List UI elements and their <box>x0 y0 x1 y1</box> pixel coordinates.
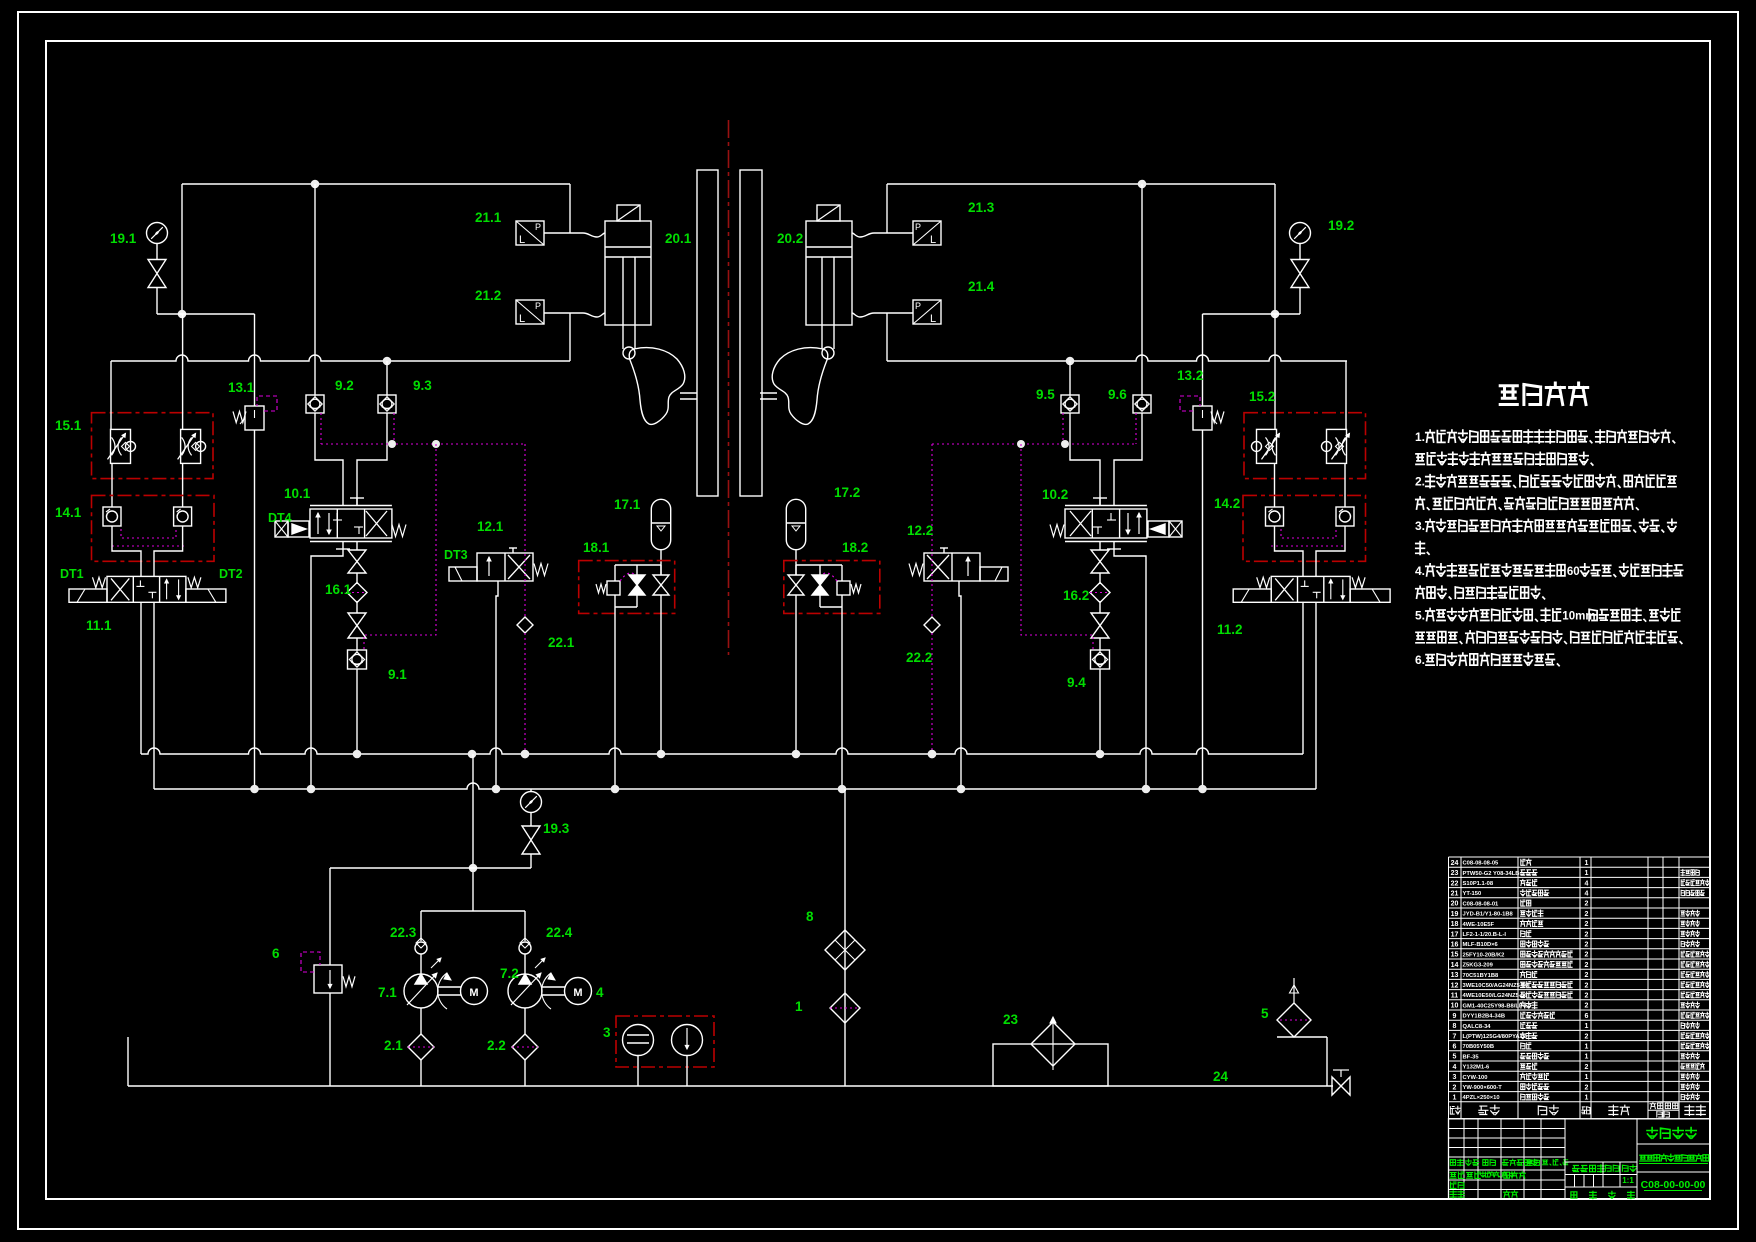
wire to bus1 <box>1099 669 1101 754</box>
tank return riser left <box>127 1037 129 1086</box>
svg-text:1: 1 <box>1585 1023 1589 1030</box>
wires in box <box>615 564 661 566</box>
wire 9.5 to valve 10.2 <box>1070 413 1100 505</box>
svg-text:8: 8 <box>1453 1023 1457 1030</box>
svg-text:2.2: 2.2 <box>487 1038 506 1053</box>
centerline (red dash-dot) <box>728 120 730 655</box>
wire below valve <box>356 541 358 550</box>
svg-text:JYD-B1/Y1-80-1B8: JYD-B1/Y1-80-1B8 <box>1463 912 1514 918</box>
node 182,314 <box>178 310 187 319</box>
svg-text:8: 8 <box>806 909 814 924</box>
svg-text:Z5KG3-209: Z5KG3-209 <box>1463 963 1494 969</box>
svg-text:P: P <box>915 222 921 232</box>
svg-text:QALC8-34: QALC8-34 <box>1463 1024 1492 1030</box>
solenoid 10.2 <box>1169 521 1182 537</box>
relief valve 6 <box>314 965 342 993</box>
svg-text:2: 2 <box>1585 911 1589 918</box>
svg-text:5.: 5. <box>1415 608 1425 622</box>
cylinder 20.2 <box>806 221 852 325</box>
svg-text:1: 1 <box>1585 1074 1589 1081</box>
return elbow to bus2 <box>311 549 343 789</box>
red box 14.1 <box>92 495 215 561</box>
valve 11.1 ports down <box>140 602 142 754</box>
claw 20.2 <box>772 348 828 425</box>
drawing title <box>1637 1171 1710 1173</box>
motor M for 7.2 <box>542 986 565 988</box>
tank bottom line <box>128 1085 1333 1087</box>
pilot dotted header left y444 <box>321 443 525 445</box>
svg-text:70C51BY1B8: 70C51BY1B8 <box>1463 973 1500 979</box>
svg-text:1:1: 1:1 <box>1622 1176 1634 1185</box>
svg-text:P: P <box>535 301 541 311</box>
svg-text:YW-900×600-T: YW-900×600-T <box>1463 1085 1503 1091</box>
svg-text:2: 2 <box>1585 921 1589 928</box>
svg-text:4: 4 <box>1453 1064 1457 1071</box>
tech line 2 <box>1416 452 1593 465</box>
wire accumulator stem <box>795 549 797 575</box>
svg-text:20.1: 20.1 <box>665 231 692 246</box>
poppet valves in 18.1 <box>653 575 669 595</box>
main directional valve 11.2 <box>1271 576 1350 602</box>
svg-text:2: 2 <box>1585 972 1589 979</box>
filter 2.2 <box>512 1034 538 1060</box>
port stubs 10.2 <box>1099 498 1101 505</box>
pilot dotted 22.1 line <box>524 444 526 617</box>
svg-text:19: 19 <box>1451 911 1459 918</box>
wire 9.5 stub <box>1069 361 1071 395</box>
check valve 9.5 <box>1061 395 1079 413</box>
svg-text:22.4: 22.4 <box>546 925 573 940</box>
pilot dotted 22.2 lower <box>931 633 933 754</box>
svg-text:2.1: 2.1 <box>384 1038 403 1053</box>
svg-text:S10P1.1-08: S10P1.1-08 <box>1463 881 1494 887</box>
pilot dotted stubs under 9.2/9.3 <box>320 413 322 444</box>
svg-text:6: 6 <box>1453 1044 1457 1051</box>
svg-text:19.3: 19.3 <box>543 821 570 836</box>
svg-text:L: L <box>519 313 525 325</box>
pilot stage in 18.1 <box>607 581 620 595</box>
svg-text:L: L <box>930 313 936 325</box>
filter 16.1 <box>347 583 367 603</box>
svg-text:2: 2 <box>1585 1084 1589 1091</box>
red box 18.1 <box>579 561 675 614</box>
title block outline <box>1449 1119 1711 1199</box>
wire to bus1 <box>356 669 358 754</box>
svg-text:L: L <box>930 234 936 246</box>
check 22.1 <box>517 617 533 633</box>
svg-text:L: L <box>519 234 525 246</box>
directional valve 10.1 (DT4 side) <box>310 505 392 507</box>
header left y314 <box>157 313 255 315</box>
svg-text:20: 20 <box>1451 901 1459 908</box>
svg-text:1.: 1. <box>1415 430 1425 444</box>
piston rod pin 20.1 <box>623 347 635 359</box>
svg-text:18: 18 <box>1451 921 1459 928</box>
riser x1142 <box>1141 184 1143 395</box>
wire 9.6 to valve 10.2 <box>1114 413 1142 505</box>
check valve 9.6 <box>1133 395 1151 413</box>
pilot dotted 14.1 <box>121 529 176 538</box>
svg-text:DT2: DT2 <box>219 567 243 581</box>
node 1275,314 <box>1271 310 1280 319</box>
svg-text:DT3: DT3 <box>444 548 468 562</box>
tech line 4 <box>1416 497 1638 510</box>
pilot dashed 6 <box>301 952 320 972</box>
pilot dotted drop x1021 <box>1021 444 1093 650</box>
bus elbow into 15.1 <box>110 361 112 429</box>
svg-text:BF-35: BF-35 <box>1463 1054 1480 1060</box>
shutoff valve above 16.1 <box>348 550 366 573</box>
shutoff valve below 16.1 <box>348 613 366 638</box>
handle 12.1 <box>509 547 517 549</box>
svg-text:17: 17 <box>1451 931 1459 938</box>
svg-text:24: 24 <box>1213 1069 1229 1084</box>
shutoff valve under 19.1 <box>148 260 166 288</box>
svg-text:10.1: 10.1 <box>284 486 311 501</box>
signature grid <box>1449 1118 1566 1120</box>
air filter 5 <box>1293 978 1295 1003</box>
wire 13 to bus2 <box>1202 430 1204 789</box>
wire sensor-cylinder <box>544 313 605 317</box>
svg-text:5: 5 <box>1453 1054 1457 1061</box>
accumulator 17.2 <box>786 499 805 549</box>
wires in box <box>796 564 842 566</box>
svg-text:4.: 4. <box>1415 564 1425 578</box>
wires 14.2 to valve 11.2 <box>1275 526 1304 576</box>
svg-text:18.2: 18.2 <box>842 540 868 555</box>
pilot dotted 22.1 lower <box>524 633 526 754</box>
svg-text:C08-08-08-05: C08-08-08-05 <box>1463 861 1500 867</box>
guide plate right <box>740 170 762 496</box>
pressure sensor 21.1 <box>516 221 544 245</box>
wires out of box <box>819 595 821 607</box>
bus line T (y789) <box>154 783 1316 789</box>
wire <box>1274 463 1276 507</box>
solenoid 10.1 <box>275 521 288 537</box>
handle 12.2 <box>940 547 948 549</box>
wire <box>356 601 358 613</box>
svg-text:21.4: 21.4 <box>968 279 995 294</box>
svg-text:L(PTW)125G4/80PYA1B: L(PTW)125G4/80PYA1B <box>1463 1034 1528 1040</box>
svg-text:4WE-10E5F: 4WE-10E5F <box>1463 922 1495 928</box>
poppet valves in 18.2 <box>788 575 804 595</box>
pilot dashed 13.1 <box>257 396 277 411</box>
svg-text:MLF-B10D×6: MLF-B10D×6 <box>1463 942 1499 948</box>
svg-text:2.: 2. <box>1415 475 1425 489</box>
svg-text:19.2: 19.2 <box>1328 218 1354 233</box>
filter 2.1 <box>408 1034 434 1060</box>
node top-right <box>1138 180 1147 189</box>
svg-text:10: 10 <box>1451 1003 1459 1010</box>
wire riser top <box>569 184 571 233</box>
guide plate left <box>697 170 718 496</box>
svg-text:16.1: 16.1 <box>325 582 352 597</box>
wire <box>1299 288 1301 315</box>
svg-text:LF2-1-1/20.B-L-I: LF2-1-1/20.B-L-I <box>1463 932 1507 938</box>
check valve 9.2 <box>306 395 324 413</box>
svg-text:P: P <box>535 222 541 232</box>
wire <box>356 573 358 584</box>
svg-text:2: 2 <box>1585 1033 1589 1040</box>
pilot check 14.1b <box>174 507 192 526</box>
svg-text:9.4: 9.4 <box>1067 675 1086 690</box>
wire riser to 13.1 <box>254 314 256 406</box>
svg-text:9: 9 <box>1453 1013 1457 1020</box>
svg-text:21: 21 <box>1451 891 1459 898</box>
university name <box>1637 1143 1710 1145</box>
motor M for 7.1 <box>438 986 461 988</box>
svg-text:24: 24 <box>1451 860 1459 867</box>
riser left x182 <box>181 184 183 314</box>
rotation arrow 7.2 <box>542 973 551 1009</box>
suction 2.2 <box>524 1008 526 1034</box>
wire <box>156 244 158 260</box>
svg-text:12: 12 <box>1451 982 1459 989</box>
svg-text:2: 2 <box>1585 1003 1589 1010</box>
svg-text:11.2: 11.2 <box>1217 622 1243 637</box>
svg-text:11.1: 11.1 <box>86 618 112 633</box>
check valve 9.3 <box>378 395 396 413</box>
svg-text:21.1: 21.1 <box>475 210 502 225</box>
svg-text:1: 1 <box>1453 1095 1457 1102</box>
wire <box>156 288 158 315</box>
wire 9.3 stub <box>386 361 388 395</box>
svg-text:2: 2 <box>1585 942 1589 949</box>
pilot bus right y361 <box>887 355 1347 361</box>
tech line 10 <box>1416 631 1682 644</box>
pilot bus left y361 <box>111 355 570 361</box>
svg-text:10.2: 10.2 <box>1042 487 1068 502</box>
svg-text:19.1: 19.1 <box>110 231 137 246</box>
svg-text:9.1: 9.1 <box>388 667 407 682</box>
svg-text:C08-08-08-01: C08-08-08-01 <box>1463 901 1500 907</box>
relief valve 13.2 <box>1193 406 1212 430</box>
wire 9.2 to valve 10.1 <box>315 413 343 505</box>
svg-text:4PZL×250×10: 4PZL×250×10 <box>1463 1095 1500 1101</box>
svg-text:14: 14 <box>1451 962 1459 969</box>
pilot stage in 18.2 <box>837 581 850 595</box>
svg-text:YT-150: YT-150 <box>1463 891 1482 897</box>
svg-text:70B05Y50B: 70B05Y50B <box>1463 1044 1495 1050</box>
pilot dashed 13.2 <box>1180 396 1200 411</box>
riser right x1275 <box>1274 184 1276 314</box>
svg-text:20.2: 20.2 <box>777 231 803 246</box>
svg-text:2: 2 <box>1453 1084 1457 1091</box>
check valve 9.4 <box>1091 650 1110 669</box>
tech line 8 <box>1416 586 1545 599</box>
svg-text:2: 2 <box>1585 952 1589 959</box>
svg-text:7.1: 7.1 <box>378 985 397 1000</box>
svg-text:16: 16 <box>1451 942 1459 949</box>
pressure sensor 21.3 <box>913 221 941 245</box>
pilot dotted drop x436 <box>364 444 436 650</box>
wires out of box <box>636 595 638 607</box>
spring 12.1 <box>534 564 548 576</box>
svg-text:14.2: 14.2 <box>1214 496 1240 511</box>
top line right <box>887 183 1275 185</box>
svg-text:15: 15 <box>1451 952 1459 959</box>
svg-text:15.1: 15.1 <box>55 418 82 433</box>
shutoff valve above 16.2 <box>1091 550 1109 573</box>
spring 10.2 <box>1050 525 1064 537</box>
wires 14.1 to valve 11.1 <box>112 526 141 576</box>
red box 18.2 <box>784 561 880 614</box>
pilot dotted 22.2 line <box>931 444 933 617</box>
wire <box>1299 244 1301 260</box>
svg-text:CYW-100: CYW-100 <box>1463 1075 1488 1081</box>
tech line 6 <box>1416 542 1429 555</box>
node 473,868 <box>469 864 478 873</box>
top line left <box>182 183 570 185</box>
wire accumulator stem <box>660 549 662 575</box>
piston rod pin 20.2 <box>822 347 834 359</box>
gauge 19.3 stub <box>530 789 532 792</box>
pilot check 14.2a <box>1266 507 1284 526</box>
svg-text:1: 1 <box>1585 1054 1589 1061</box>
svg-text:1: 1 <box>1585 870 1589 877</box>
wire riser to 13.2 <box>1202 314 1204 406</box>
filler neck 5 <box>1277 1036 1327 1038</box>
wire sensor-cylinder <box>852 233 913 237</box>
pump manifold <box>421 910 525 912</box>
check 22.2 <box>924 617 940 633</box>
svg-text:12.1: 12.1 <box>477 519 504 534</box>
check valve 9.1 <box>348 650 367 669</box>
riser through 15.2a <box>1274 314 1276 429</box>
pressure gauge 19.3 <box>521 792 542 813</box>
claw link 20.1 <box>680 392 697 394</box>
svg-text:6: 6 <box>1585 1013 1589 1020</box>
svg-text:2: 2 <box>1585 931 1589 938</box>
svg-text:9.2: 9.2 <box>335 378 354 393</box>
svg-text:11: 11 <box>1451 993 1459 1000</box>
claw link 20.2 <box>760 392 777 394</box>
stage mark zone <box>1565 1161 1637 1163</box>
relief valve 6 drop <box>329 868 331 965</box>
spring 10.1 <box>392 525 406 537</box>
svg-text:M: M <box>573 987 582 999</box>
svg-text:7.2: 7.2 <box>500 966 519 981</box>
svg-text:2: 2 <box>1585 901 1589 908</box>
wire 13 to bus2 <box>254 430 256 789</box>
svg-text:10mm: 10mm <box>1562 610 1595 622</box>
pilot node <box>388 440 396 448</box>
main directional valve 11.1 <box>107 576 186 602</box>
wire <box>1099 638 1101 650</box>
wire 6 to tank <box>329 993 331 1086</box>
svg-text:15.2: 15.2 <box>1249 389 1275 404</box>
pressure gauge 19.2 <box>1290 223 1311 244</box>
svg-text:9.5: 9.5 <box>1036 387 1055 402</box>
filter 16.2 <box>1090 583 1110 603</box>
header y868 <box>330 867 531 869</box>
svg-text:23: 23 <box>1451 870 1459 877</box>
accumulator 17.1 <box>651 499 670 549</box>
svg-text:17.2: 17.2 <box>834 485 860 500</box>
svg-text:7: 7 <box>1453 1033 1457 1040</box>
return elbow to bus2 <box>1114 549 1146 789</box>
pilot check 14.1a <box>103 507 121 526</box>
heat exchanger 23 <box>993 1044 1108 1086</box>
cylinder 20.1 <box>605 221 651 325</box>
wire 9.3 to valve 10.1 <box>357 413 387 505</box>
wire <box>1099 601 1101 613</box>
svg-text:9.3: 9.3 <box>413 378 432 393</box>
svg-text:2: 2 <box>1585 993 1589 1000</box>
wire riser to bus <box>886 313 888 361</box>
throttle check valve 15.1b <box>181 429 201 463</box>
svg-text:22: 22 <box>1451 880 1459 887</box>
svg-text:13.2: 13.2 <box>1177 368 1203 383</box>
svg-text:P: P <box>915 301 921 311</box>
red box 3 (tank gauges) <box>616 1016 714 1067</box>
header right y314 <box>1203 313 1301 315</box>
check 22.3 <box>415 942 427 954</box>
port stubs 10.1 <box>356 498 358 505</box>
svg-text:3.: 3. <box>1415 519 1425 533</box>
svg-text:13: 13 <box>1451 972 1459 979</box>
riser through 15.1b <box>182 314 184 429</box>
svg-text:60: 60 <box>1567 566 1580 578</box>
svg-text:18.1: 18.1 <box>583 540 610 555</box>
valve 11.2 ports down <box>1302 602 1304 754</box>
pilot dotted stubs under 9.5/9.6 <box>1135 413 1137 444</box>
svg-text:PTW50-G2 Y08-34LB: PTW50-G2 Y08-34LB <box>1463 871 1520 877</box>
pilot dotted header right y444 <box>932 443 1136 445</box>
shutoff valve below 16.2 <box>1091 613 1109 638</box>
svg-text:22.1: 22.1 <box>548 635 575 650</box>
svg-text:2: 2 <box>1585 962 1589 969</box>
relief valve 13.1 <box>245 406 264 430</box>
svg-text:14.1: 14.1 <box>55 505 82 520</box>
wire 12.1 out <box>496 581 498 789</box>
BOM table grid <box>1449 856 1711 858</box>
variable pump 7.2 <box>508 974 542 1008</box>
svg-text:4: 4 <box>1585 891 1589 898</box>
svg-text:1: 1 <box>1585 1044 1589 1051</box>
red box 15.2 <box>1244 413 1366 479</box>
directional valve 10.2 (DT4 side) <box>1065 505 1147 507</box>
directional valve 12.1 (DT3 side) <box>477 553 533 581</box>
pilot node <box>1061 440 1069 448</box>
variable pump 7.1 <box>404 974 438 1008</box>
svg-text:25FY10-20B/K2: 25FY10-20B/K2 <box>1463 952 1505 958</box>
red box 15.1 <box>92 413 214 479</box>
pilot check 14.2b <box>1336 507 1354 526</box>
svg-text:4WE10E50/LG24NZ5-30: 4WE10E50/LG24NZ5-30 <box>1463 993 1528 999</box>
svg-text:2: 2 <box>1585 982 1589 989</box>
BOM header row <box>1449 1118 1711 1120</box>
wire riser top <box>886 184 888 233</box>
wire sensor-cylinder <box>544 233 605 237</box>
svg-text:3: 3 <box>603 1025 611 1040</box>
bus line P (y754) <box>141 748 1303 754</box>
wire <box>1099 573 1101 584</box>
breather 8 <box>825 930 865 970</box>
wire <box>1344 463 1346 507</box>
svg-text:21.3: 21.3 <box>968 200 995 215</box>
svg-text:3WE10C50/AG24NZ5-50: 3WE10C50/AG24NZ5-50 <box>1463 983 1529 989</box>
suction 2.1 <box>420 1008 422 1034</box>
wire riser to bus <box>569 313 571 361</box>
wire <box>111 463 113 507</box>
riser x315 <box>314 184 316 395</box>
svg-text:DT1: DT1 <box>60 567 84 581</box>
directional valve 12.2 (DT3 side) <box>924 553 980 581</box>
svg-text:DYY1B2B4-34B: DYY1B2B4-34B <box>1463 1014 1506 1020</box>
svg-text:13.1: 13.1 <box>228 380 255 395</box>
svg-text:1: 1 <box>795 999 803 1014</box>
